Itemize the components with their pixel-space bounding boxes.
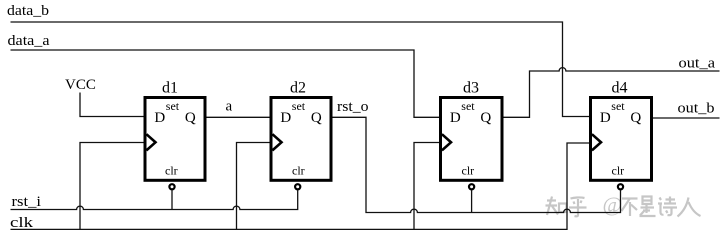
svg-text:out_a: out_a — [679, 55, 716, 71]
svg-text:d1: d1 — [162, 79, 178, 96]
node a: wire d1 Q to d2 D — [205, 116, 271, 118]
svg-text:D: D — [280, 110, 291, 126]
wire data_b: top rail, drop at x=562.5, into d4 D pin — [11, 22, 591, 117]
flip-flop d3 clock triangle — [442, 134, 451, 150]
wire rst_o: d2 Q output, down at x=366, rail with hops, ends up at d4 clr riser — [331, 117, 621, 212]
svg-text:Q: Q — [630, 110, 641, 126]
flip-flop d4 clr bubble — [618, 184, 623, 189]
flip-flop d2 clock triangle — [272, 134, 281, 150]
watermark 知乎 @不是诗人 (drawn glyph approximation) — [546, 197, 702, 219]
svg-text:set: set — [461, 99, 475, 113]
svg-text:Q: Q — [311, 110, 322, 126]
wire d3 clock riser — [414, 143, 441, 230]
svg-text:D: D — [154, 110, 165, 126]
flip-flop d3 body — [441, 98, 503, 181]
svg-text:clr: clr — [612, 164, 625, 178]
flip-flop d2 clr bubble — [295, 184, 300, 189]
svg-text:d2: d2 — [290, 79, 306, 96]
svg-text:D: D — [600, 110, 611, 126]
flip-flop d3 clr bubble — [469, 184, 474, 189]
svg-text:VCC: VCC — [65, 77, 96, 93]
svg-text:rst_o: rst_o — [337, 99, 369, 115]
wire data_a: rail, drop at x=413.5, into d3 D pin — [11, 50, 441, 117]
wire out_b from d4 Q — [652, 117, 720, 119]
svg-text:d3: d3 — [463, 79, 479, 96]
svg-text:Q: Q — [185, 110, 196, 126]
flip-flop d4 body — [591, 98, 652, 181]
wire out_a: d3 Q up and right with hop over data_b drop — [502, 68, 720, 118]
svg-text:clr: clr — [165, 164, 178, 178]
svg-text:rst_i: rst_i — [12, 194, 42, 210]
svg-text:Q: Q — [480, 110, 491, 126]
wire rst_i rail with hops over clock risers, ends up at d2 clr riser — [11, 190, 298, 209]
flip-flop d2 body — [271, 98, 331, 181]
wire d3 clr to rst_o rail — [471, 190, 473, 212]
flip-flop d4 clock triangle — [592, 134, 601, 150]
svg-text:a: a — [226, 99, 233, 115]
flip-flop d1 clock triangle — [146, 134, 155, 150]
svg-text:data_b: data_b — [7, 3, 49, 19]
wire d2 clock riser — [237, 143, 272, 230]
svg-text:set: set — [292, 99, 306, 113]
svg-text:d4: d4 — [612, 79, 628, 96]
svg-text:out_b: out_b — [678, 100, 715, 116]
svg-text:clk: clk — [10, 215, 34, 231]
wire clk rail, turns up at x=567 into d4 clock stub — [11, 143, 591, 229]
svg-text:clr: clr — [462, 164, 475, 178]
svg-text:data_a: data_a — [8, 33, 50, 49]
flip-flop d1 body — [145, 98, 205, 181]
svg-text:D: D — [450, 110, 461, 126]
wire VCC to d1 D pin — [80, 93, 145, 117]
svg-text:set: set — [166, 99, 180, 113]
wire d1 clr to rst_i rail — [171, 190, 173, 209]
flip-flop d1 clr bubble — [169, 184, 174, 189]
svg-text:set: set — [611, 99, 625, 113]
svg-text:clr: clr — [292, 164, 305, 178]
wire d1 clock stub and riser — [80, 143, 145, 230]
